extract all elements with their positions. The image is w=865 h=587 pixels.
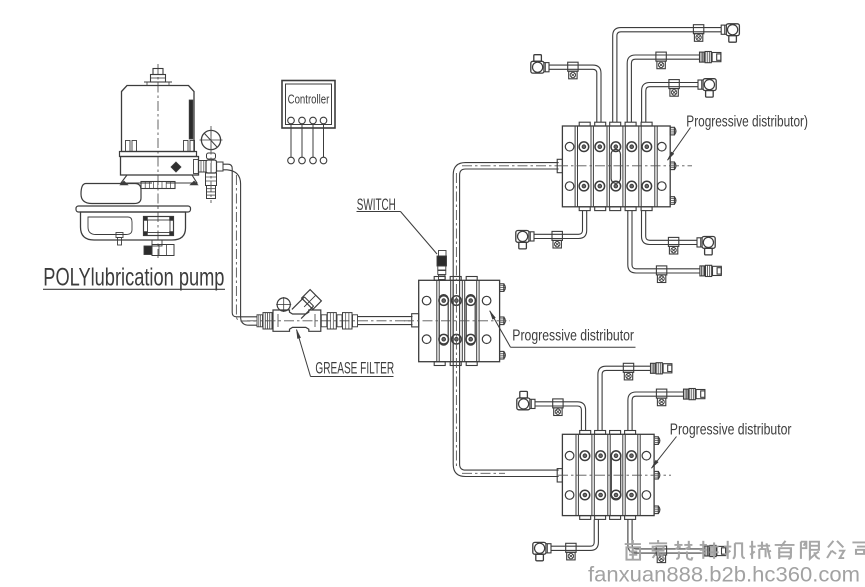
svg-text:GREASE FILTER: GREASE FILTER (315, 358, 394, 377)
svg-text:SWITCH: SWITCH (357, 195, 396, 213)
svg-text:Progressive distributor: Progressive distributor (670, 421, 792, 439)
svg-text:POLYlubrication pump: POLYlubrication pump (43, 262, 224, 291)
svg-text:Progressive distributor): Progressive distributor) (686, 112, 808, 130)
svg-text:Controller: Controller (288, 93, 330, 107)
svg-text:Progressive distributor: Progressive distributor (512, 327, 634, 345)
svg-text:fanxuan888.b2b.hc360.com: fanxuan888.b2b.hc360.com (588, 563, 860, 586)
